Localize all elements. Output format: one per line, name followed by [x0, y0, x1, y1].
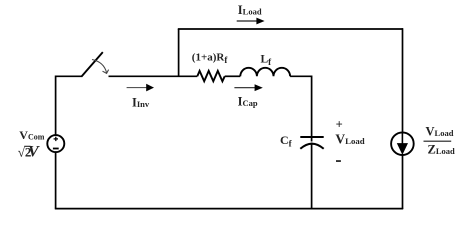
- Vcom plus sign: [54, 137, 58, 141]
- svg-text:ZLoad: ZLoad: [428, 143, 456, 157]
- wire: left vertical (source to bottom corner): [55, 152, 57, 209]
- svg-text:IInv: IInv: [132, 96, 150, 110]
- wire: bottom horizontal: [55, 208, 403, 210]
- capacitor Cf flat plate: [300, 136, 323, 138]
- arrow IInv: [127, 84, 154, 92]
- switch actuation arc arrow: [92, 60, 109, 74]
- svg-text:Cf: Cf: [280, 133, 293, 149]
- wire: capacitor branch vertical (bottom): [311, 143, 313, 209]
- load source arrow shaft: [401, 132, 403, 146]
- label minus (capacitor voltage): [336, 160, 341, 162]
- wire: left vertical (top segment, corner to source): [55, 76, 57, 136]
- svg-text:ICap: ICap: [238, 94, 258, 108]
- resistor R=(1+a)Rf zigzag: [197, 71, 224, 81]
- wire: right vertical (load source to bottom): [402, 155, 404, 209]
- svg-text:V: V: [28, 143, 40, 160]
- wire: switch left horizontal: [55, 75, 82, 77]
- arrow ICap: [234, 84, 262, 91]
- wire: capacitor branch vertical (top): [311, 76, 313, 142]
- wire: resistor to inductor: [225, 75, 241, 77]
- svg-text:VLoad: VLoad: [426, 125, 454, 139]
- wire: inductor to capacitor corner: [290, 75, 312, 77]
- svg-text:(1+a)Rf: (1+a)Rf: [192, 52, 229, 66]
- capacitor Cf curved plate: [300, 144, 323, 149]
- svg-text:VLoad: VLoad: [335, 131, 364, 146]
- wire: top horizontal: [178, 28, 403, 30]
- voltage source Vcom circle: [47, 135, 64, 152]
- wire: right vertical (top corner to load source): [402, 28, 404, 132]
- svg-text:+: +: [336, 117, 343, 131]
- inductor Lf (3 humps): [240, 68, 290, 77]
- current source (load) circle: [391, 132, 414, 155]
- arrow ILoad: [237, 18, 265, 25]
- label fraction VLoad/ZLoad: [424, 125, 456, 157]
- svg-text:ILoad: ILoad: [238, 3, 262, 17]
- node: junction to top branch at x=178.6: [178, 29, 180, 76]
- svg-text:VCom: VCom: [19, 128, 44, 142]
- label sqrt2 V: [18, 143, 40, 160]
- svg-text:Lf: Lf: [261, 53, 273, 67]
- switch blade: [81, 52, 102, 77]
- load source arrow head: [397, 143, 408, 155]
- Vcom minus sign: [53, 148, 59, 150]
- wire: middle horizontal (switch to resistor): [109, 75, 198, 77]
